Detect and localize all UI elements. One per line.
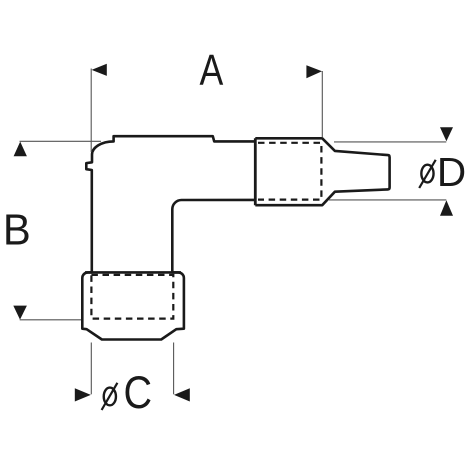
svg-text:C: C: [124, 368, 153, 418]
dimension C left arrow: [75, 388, 91, 401]
dimension B bottom arrow: [13, 306, 27, 320]
dimension B top arrow: [14, 142, 27, 157]
dimension D top line: [334, 141, 446, 143]
dimension A right extension line: [321, 71, 323, 138]
dimension B bottom line: [20, 319, 81, 321]
terminal nozzle outline: [255, 138, 389, 205]
svg-text:B: B: [3, 206, 31, 255]
hidden barrel dashed rectangle inside nozzle: [258, 143, 321, 200]
svg-text:D: D: [437, 149, 466, 195]
dimension C left extension line: [90, 343, 92, 395]
spark plug cap body outline (elbow profile): [82, 136, 255, 339]
dimension D bottom line: [329, 199, 446, 201]
dimension A left arrow: [92, 64, 107, 76]
boot shoulder line: [85, 271, 181, 274]
dimension A left extension line: [90, 69, 92, 153]
dimension C right extension line: [173, 343, 175, 395]
hidden cavity dashed rectangle inside boot: [91, 275, 173, 319]
dimension D bottom arrow: [440, 200, 453, 216]
svg-text:A: A: [200, 47, 224, 95]
diameter symbol for D: [419, 160, 436, 188]
dimension B top line: [20, 140, 102, 142]
dimension C right arrow: [174, 388, 190, 401]
diameter symbol for C: [102, 383, 118, 410]
dimension A right arrow: [306, 65, 322, 78]
dimension D top arrow: [440, 127, 453, 141]
nozzle junction vertical line: [254, 138, 257, 205]
